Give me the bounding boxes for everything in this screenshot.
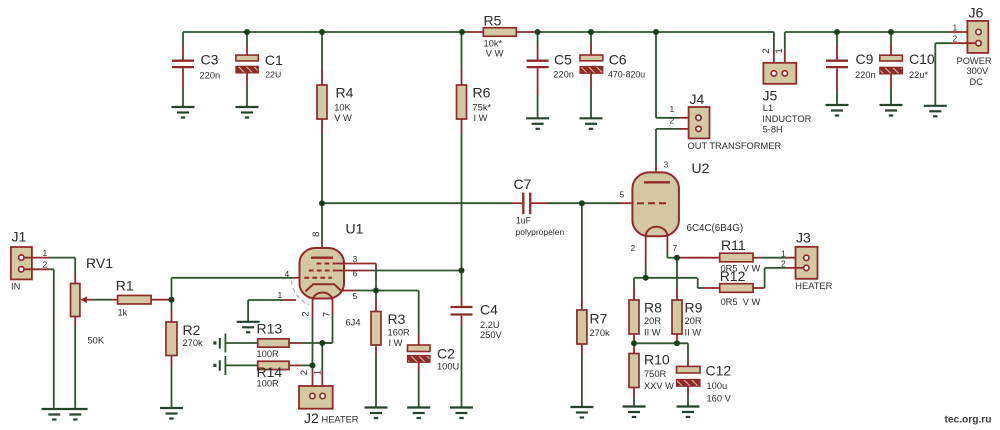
svg-text:7: 7 [673, 243, 678, 253]
svg-text:220n: 220n [553, 69, 574, 79]
svg-text:160 V: 160 V [707, 394, 732, 404]
svg-text:HEATER: HEATER [795, 281, 832, 291]
svg-text:tec.org.ru: tec.org.ru [945, 415, 992, 426]
svg-text:2.2U: 2.2U [480, 320, 500, 330]
svg-text:J4: J4 [690, 91, 705, 107]
svg-text:75k*: 75k* [473, 102, 492, 112]
svg-text:2: 2 [631, 243, 636, 253]
svg-text:270k: 270k [590, 328, 611, 338]
svg-text:6C4C(6B4G): 6C4C(6B4G) [687, 223, 744, 234]
svg-text:7: 7 [322, 312, 333, 317]
svg-text:1: 1 [781, 248, 786, 258]
svg-text:C5: C5 [554, 52, 572, 68]
svg-text:J1: J1 [12, 229, 27, 245]
svg-text:R6: R6 [473, 85, 491, 101]
svg-text:I W: I W [474, 113, 488, 123]
svg-text:C10: C10 [909, 51, 935, 67]
svg-text:100u: 100u [707, 381, 728, 391]
svg-text:470-820u: 470-820u [608, 69, 645, 79]
svg-text:1: 1 [953, 23, 958, 33]
svg-text:I W: I W [389, 338, 403, 348]
svg-text:POWER: POWER [957, 56, 992, 66]
svg-text:2: 2 [781, 259, 786, 269]
svg-text:HEATER: HEATER [322, 415, 359, 425]
svg-text:IN: IN [11, 282, 20, 292]
svg-text:1uF: 1uF [516, 216, 532, 226]
svg-text:100R: 100R [257, 349, 280, 359]
svg-text:5: 5 [353, 291, 358, 301]
svg-text:V W: V W [334, 113, 352, 123]
svg-text:10k*: 10k* [484, 38, 503, 48]
svg-text:22U: 22U [265, 69, 281, 79]
svg-text:J2: J2 [304, 410, 319, 426]
svg-text:V W: V W [486, 49, 504, 59]
svg-text:C3: C3 [201, 52, 219, 68]
svg-text:RV1: RV1 [86, 255, 113, 271]
svg-text:270k: 270k [183, 338, 204, 348]
svg-text:R11: R11 [721, 237, 746, 253]
svg-text:1: 1 [278, 290, 283, 300]
svg-text:J3: J3 [796, 229, 811, 245]
svg-text:U1: U1 [346, 221, 364, 237]
svg-text:220n: 220n [200, 70, 221, 80]
svg-text:1: 1 [670, 104, 675, 114]
svg-text:C7: C7 [514, 176, 532, 192]
svg-text:R8: R8 [644, 300, 662, 316]
svg-text:2: 2 [761, 48, 772, 53]
svg-text:1k: 1k [118, 308, 128, 318]
svg-text:C4: C4 [480, 302, 498, 318]
svg-text:C6: C6 [609, 52, 627, 68]
svg-text:DC: DC [970, 77, 984, 87]
svg-text:C2: C2 [437, 346, 455, 362]
svg-text:C9: C9 [856, 51, 874, 67]
svg-text:XXV W: XXV W [644, 381, 674, 391]
svg-text:2: 2 [953, 34, 958, 44]
svg-text:2: 2 [299, 370, 310, 375]
svg-text:2: 2 [301, 311, 312, 316]
svg-text:0R5 V W: 0R5 V W [721, 297, 761, 307]
svg-text:R12: R12 [720, 268, 746, 284]
svg-text:R7: R7 [590, 311, 608, 327]
svg-text:5: 5 [620, 190, 625, 200]
svg-text:50K: 50K [88, 336, 105, 346]
svg-text:J6: J6 [969, 5, 984, 21]
svg-text:U2: U2 [692, 160, 710, 176]
svg-text:R3: R3 [388, 311, 406, 327]
svg-text:2: 2 [43, 260, 48, 270]
svg-text:R1: R1 [116, 278, 134, 294]
svg-text:C1: C1 [265, 52, 283, 68]
svg-text:160R: 160R [388, 328, 411, 338]
svg-text:4: 4 [285, 269, 290, 279]
svg-text:250V: 250V [480, 330, 503, 340]
svg-text:OUT TRANSFORMER: OUT TRANSFORMER [688, 141, 782, 151]
svg-text:100U: 100U [437, 362, 459, 372]
svg-text:5-8H: 5-8H [763, 125, 783, 135]
svg-text:2: 2 [670, 116, 675, 126]
svg-text:C12: C12 [706, 363, 732, 379]
svg-text:220n: 220n [855, 70, 876, 80]
svg-text:3: 3 [353, 254, 358, 264]
svg-text:6: 6 [353, 269, 358, 279]
svg-text:II W: II W [644, 328, 661, 338]
svg-text:3: 3 [664, 160, 669, 170]
svg-text:100R: 100R [257, 379, 280, 389]
svg-text:750R: 750R [644, 369, 667, 379]
svg-text:R9: R9 [685, 300, 703, 316]
svg-text:6J4: 6J4 [346, 318, 361, 328]
svg-text:R13: R13 [257, 321, 283, 337]
svg-text:20R: 20R [644, 316, 661, 326]
svg-text:R5: R5 [484, 13, 502, 29]
svg-text:polypropelen: polypropelen [516, 227, 565, 237]
svg-text:J5: J5 [763, 88, 778, 104]
svg-text:1: 1 [43, 248, 48, 258]
svg-text:L1: L1 [763, 103, 773, 113]
svg-text:R10: R10 [644, 352, 670, 368]
svg-text:8: 8 [311, 232, 322, 237]
svg-text:R2: R2 [183, 322, 201, 338]
svg-text:II W: II W [685, 328, 702, 338]
svg-text:300V: 300V [967, 66, 990, 76]
svg-text:22u*: 22u* [909, 70, 929, 80]
svg-text:20R: 20R [685, 316, 702, 326]
svg-text:1: 1 [774, 48, 785, 53]
svg-text:10K: 10K [334, 102, 351, 112]
svg-text:1: 1 [312, 370, 323, 375]
svg-text:INDUCTOR: INDUCTOR [762, 114, 811, 124]
svg-text:R4: R4 [336, 85, 354, 101]
